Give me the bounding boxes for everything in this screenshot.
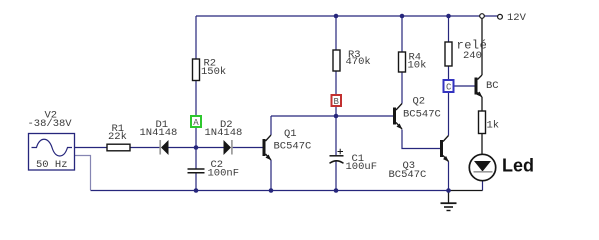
wire Q1 emitter to bottom rail <box>270 160 272 191</box>
svg-text:Q2: Q2 <box>413 96 426 108</box>
capacitor C1 <box>330 149 378 173</box>
wire R3 bottom through node B to row <box>335 71 337 116</box>
svg-text:100uF: 100uF <box>346 161 378 173</box>
wire C1 bottom lead <box>335 161 337 191</box>
ground <box>441 191 457 211</box>
wire LED return to ground junction <box>449 190 483 192</box>
junction top rail R4 <box>400 14 405 19</box>
wire LED bottom lead <box>482 181 484 191</box>
junction top rail relay <box>446 14 451 19</box>
transistor Q2 <box>393 96 441 130</box>
svg-text:470k: 470k <box>346 56 371 68</box>
transistor Q1 <box>263 128 312 160</box>
wire bottom rail <box>91 190 449 192</box>
resistor R3 <box>333 49 371 71</box>
relay coil relé 240 <box>445 39 487 67</box>
transistor B0 <box>475 75 499 97</box>
svg-text:240: 240 <box>463 50 482 62</box>
svg-text:1k: 1k <box>487 120 500 132</box>
wire relay bottom to node C <box>448 66 450 80</box>
resistor R1 <box>107 123 130 151</box>
wire top rail 12V <box>196 15 498 17</box>
junction top rail R3 <box>334 14 339 19</box>
svg-text:Q1: Q1 <box>284 128 297 140</box>
junction bottom rail C1 <box>334 188 339 193</box>
svg-text:100nF: 100nF <box>208 168 240 180</box>
source V2 <box>28 110 75 172</box>
svg-text:12V: 12V <box>507 12 527 24</box>
wire node C to Q3 collector <box>448 92 450 136</box>
wire Q1 collector to node B row <box>270 116 272 135</box>
LED <box>469 154 534 180</box>
svg-text:22k: 22k <box>108 131 127 143</box>
transistor Q3 <box>389 136 449 182</box>
wire node B row: Q1 collector to Q2 base <box>271 115 393 117</box>
resistor 1k <box>479 111 500 134</box>
capacitor C2 <box>188 159 240 180</box>
terminal B0 collector on rail <box>480 14 485 19</box>
svg-text:1N4148: 1N4148 <box>205 127 243 139</box>
wire Q2 emitter down and over to Q3 base <box>402 130 440 149</box>
svg-text:10k: 10k <box>408 60 427 72</box>
svg-text:1N4148: 1N4148 <box>140 127 178 139</box>
diode D2 <box>205 119 243 155</box>
wire C2 bottom lead <box>195 173 197 190</box>
wire D2 to Q1 base <box>233 147 263 149</box>
junction bottom rail Q1 emitter <box>269 188 274 193</box>
svg-text:BC547C: BC547C <box>403 109 441 121</box>
junction bottom rail ground <box>446 188 451 193</box>
wire Q3 emitter to bottom rail <box>448 162 450 191</box>
wire relay branch top <box>448 16 450 42</box>
svg-text:BC: BC <box>486 80 499 92</box>
wire 1k resistor to LED <box>481 134 483 155</box>
svg-text:150k: 150k <box>201 66 226 78</box>
wire R2 bottom to node junction <box>195 81 197 148</box>
junction bottom rail C2 <box>194 188 199 193</box>
wire D1 to D2 through node junction <box>169 147 224 149</box>
wire R4 branch top <box>401 16 403 52</box>
wire R2 branch top <box>195 16 197 59</box>
wire node C to B0 base <box>454 85 475 87</box>
svg-text:C: C <box>446 83 452 93</box>
node A <box>191 116 201 128</box>
wire R4 bottom to Q2 collector <box>401 72 403 104</box>
diode D1 <box>140 119 178 155</box>
wire R3 branch top <box>335 16 337 50</box>
wire R1 to D1 <box>130 147 160 149</box>
resistor R4 <box>399 52 427 73</box>
node B <box>332 95 342 107</box>
svg-text:50 Hz: 50 Hz <box>36 159 68 171</box>
wire C2 top lead <box>195 148 197 169</box>
svg-text:Led: Led <box>502 156 534 176</box>
terminal 12V <box>498 12 527 24</box>
svg-text:A: A <box>193 118 199 128</box>
svg-text:BC547C: BC547C <box>274 141 312 153</box>
svg-text:-38/38V: -38/38V <box>28 118 73 130</box>
wire B0 emitter to 1k resistor <box>481 97 483 111</box>
node C <box>444 80 454 93</box>
wire C1 top lead from node B row <box>335 116 337 155</box>
junction node B row <box>334 114 339 119</box>
wire V2 upper terminal to R1 <box>75 147 108 149</box>
resistor R2 <box>193 58 227 81</box>
wire V2 lower terminal down to bottom rail <box>75 156 91 191</box>
svg-text:BC547C: BC547C <box>389 169 427 181</box>
junction node A row <box>194 145 199 150</box>
svg-text:B: B <box>334 97 340 107</box>
wire B0 collector up to 12V rail <box>481 16 483 75</box>
